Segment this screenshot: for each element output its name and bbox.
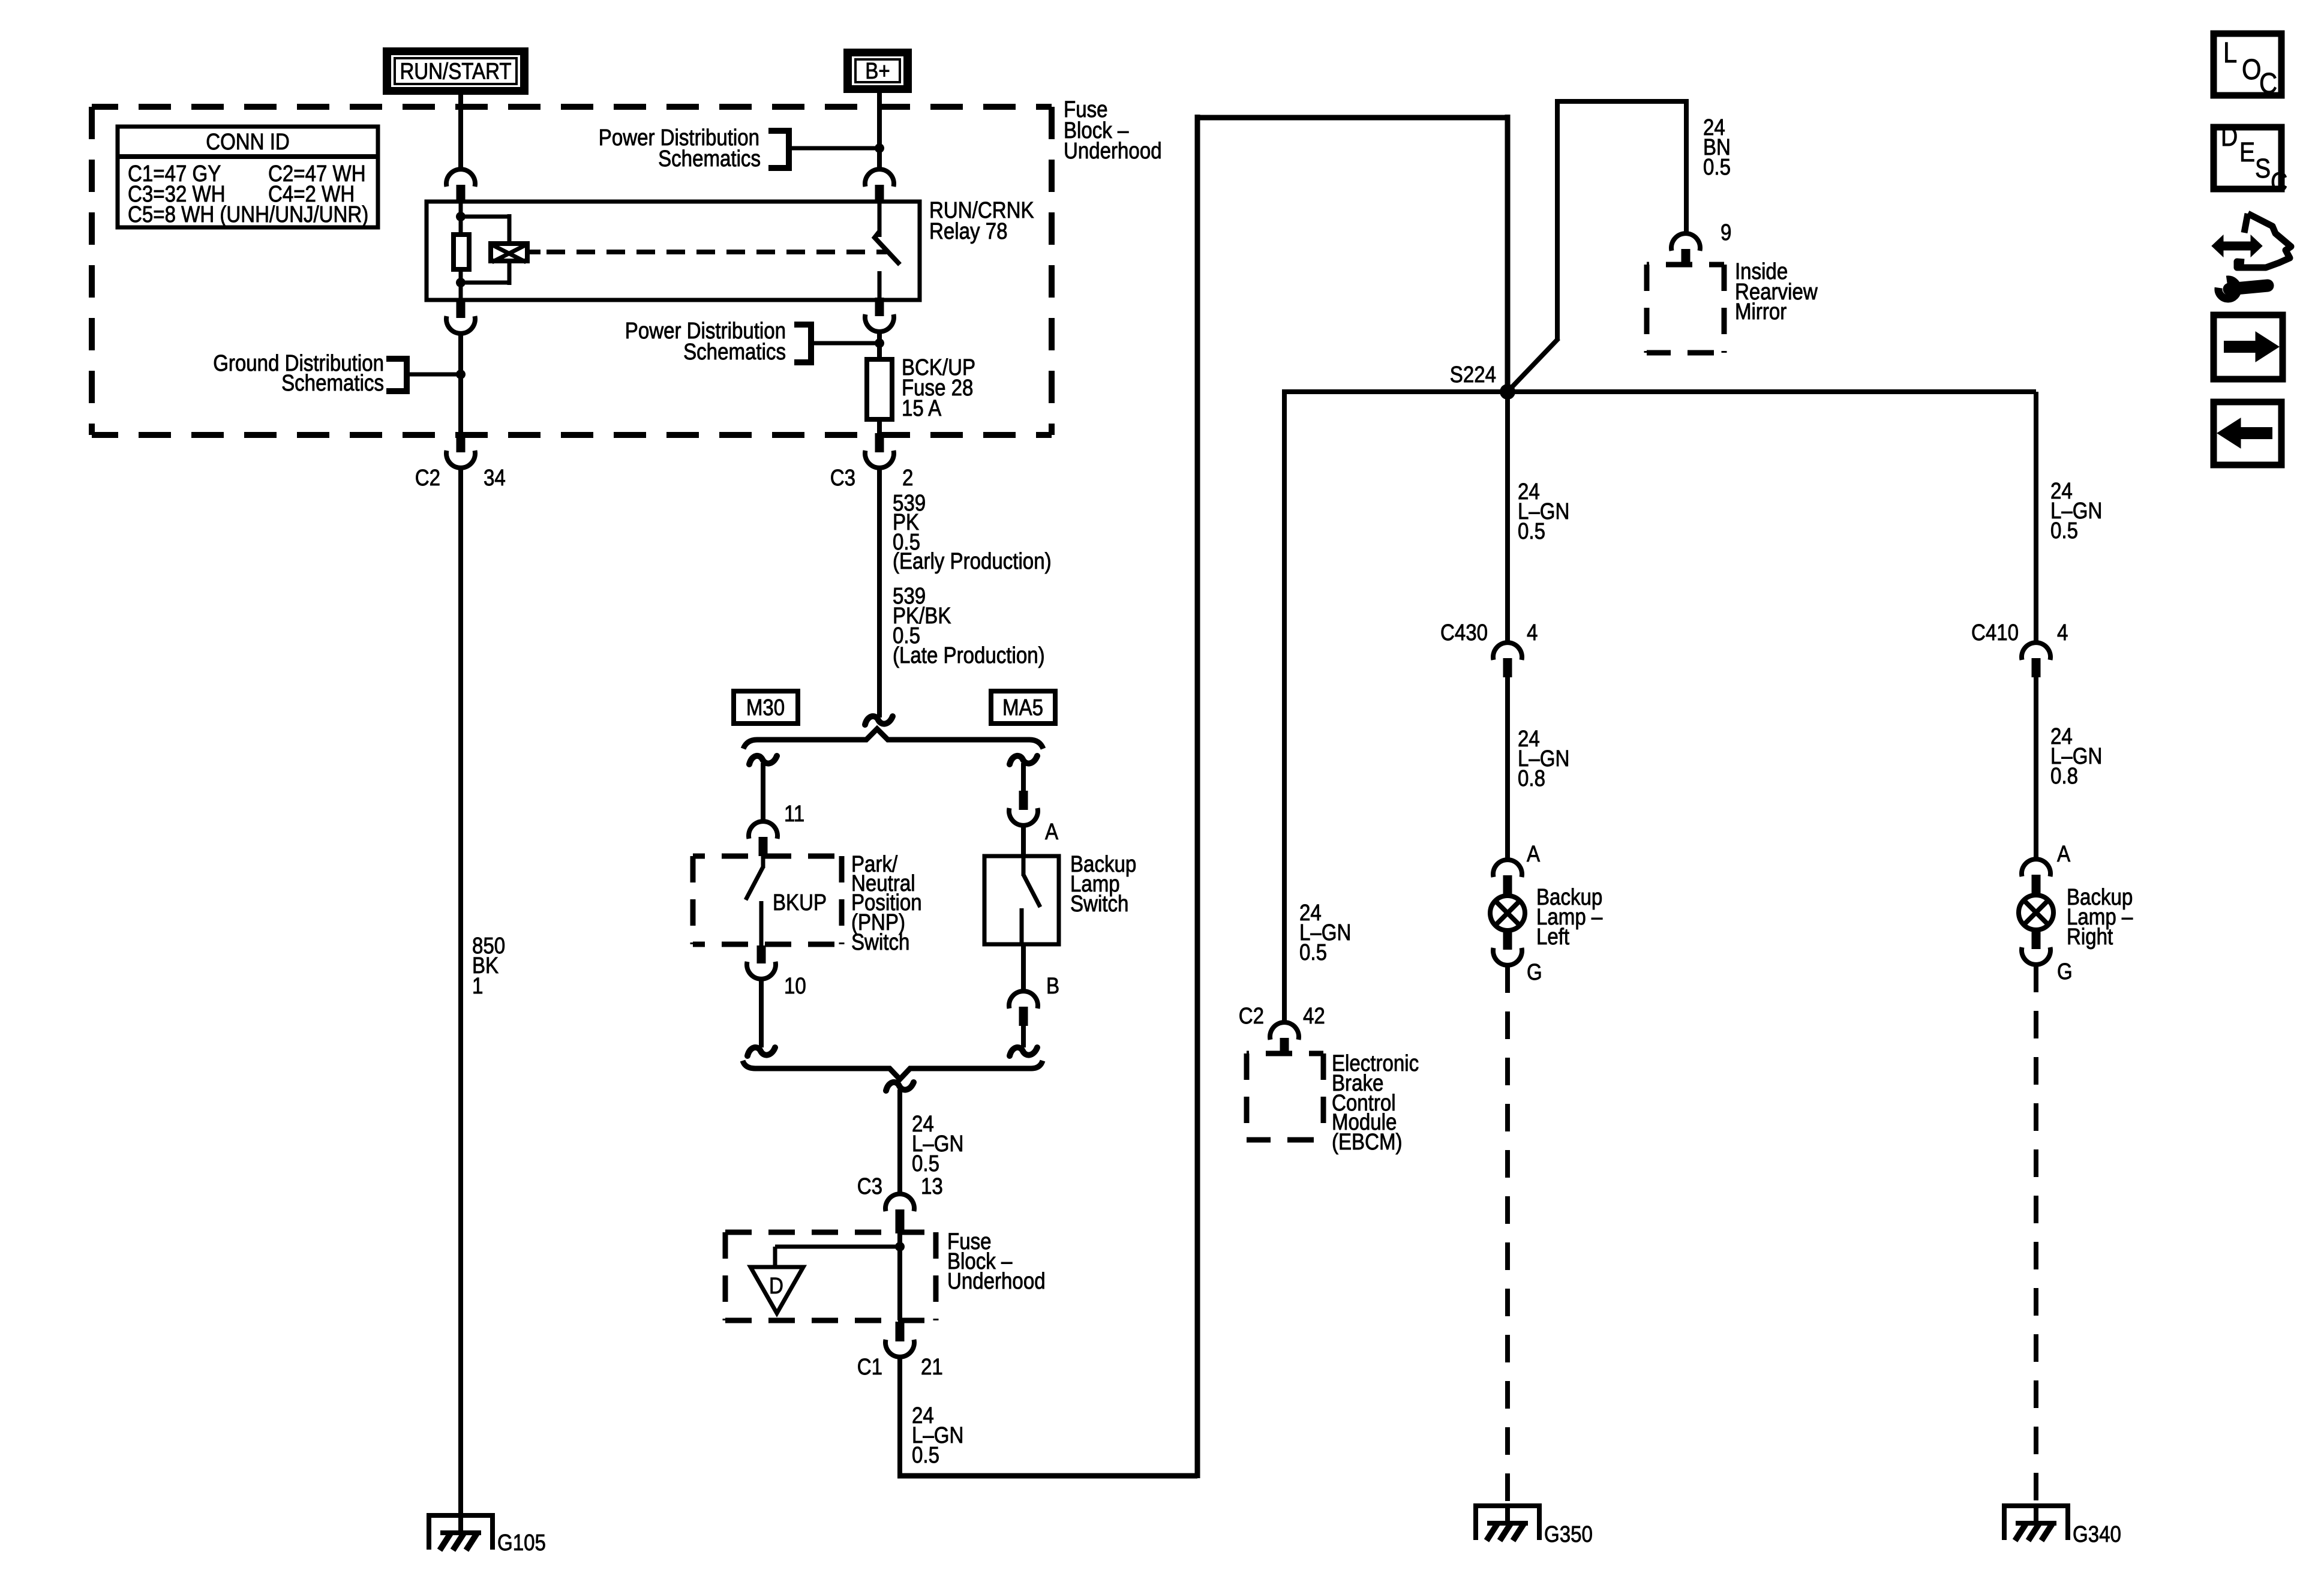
svg-text:4: 4: [2057, 620, 2068, 646]
wire bracket to left wire: [407, 373, 461, 377]
svg-text:13: 13: [921, 1174, 943, 1199]
connector lamp right pin G: [2032, 930, 2041, 949]
connector lamp right pin A: [2022, 859, 2050, 876]
wire diagonal S224 to mirror feed: [1506, 338, 1559, 394]
svg-text:Underhood: Underhood: [947, 1269, 1046, 1294]
backup lamp switch blade: [1022, 857, 1026, 876]
connector C3 pin 13: [885, 1194, 914, 1211]
connector below relay (right): [875, 298, 884, 316]
svg-text:(Late Production): (Late Production): [893, 643, 1045, 668]
svg-text:C2: C2: [1239, 1004, 1264, 1029]
svg-text:C2: C2: [415, 466, 440, 491]
wire M30 branch to pin 11: [761, 763, 765, 822]
svg-text:A: A: [2057, 842, 2071, 867]
wire hook below lower brace: [886, 1082, 914, 1091]
svg-text:M30: M30: [746, 695, 785, 721]
wire mirror feed top horizontal: [1555, 99, 1686, 104]
splice S224: [1500, 384, 1515, 400]
svg-text:S224: S224: [1450, 362, 1496, 388]
svg-text:C1: C1: [857, 1355, 882, 1380]
connector mirror pin 9: [1671, 233, 1700, 251]
relay box RUN/CRNK Relay 78: [427, 202, 920, 300]
wire hook above upper brace: [865, 716, 893, 725]
connector lamp left pin A: [1493, 860, 1522, 877]
EBCM dashed box: [1247, 1051, 1323, 1056]
svg-text:(Early Production): (Early Production): [893, 549, 1052, 574]
PNP switch blade: [761, 856, 765, 868]
power feed box RUN/START: [383, 47, 529, 95]
svg-text:11: 11: [784, 801, 804, 827]
svg-text:0.5: 0.5: [1703, 155, 1731, 180]
wire S224 to right lamp: [1508, 389, 2036, 394]
svg-text:Switch: Switch: [851, 930, 909, 955]
svg-text:Mirror: Mirror: [1735, 299, 1787, 325]
svg-text:9: 9: [1721, 220, 1731, 245]
relay solenoid element (box with X): [491, 244, 527, 261]
svg-text:S: S: [2255, 153, 2271, 184]
wire pin B to lower brace: [1021, 1026, 1026, 1047]
backup lamp switch box: [984, 856, 1059, 944]
svg-text:0.5: 0.5: [1299, 940, 1327, 965]
svg-text:0.5: 0.5: [1518, 519, 1545, 544]
relay switch contact wires: [878, 203, 882, 237]
wire C1/21 down and right: [897, 1356, 902, 1478]
connector pin B: [1021, 944, 1026, 992]
wire hook right branch bottom: [1010, 1047, 1037, 1056]
svg-text:C5=8 WH (UNH/UNJ/UNR): C5=8 WH (UNH/UNJ/UNR): [128, 202, 368, 227]
svg-text:4: 4: [1527, 620, 1538, 646]
junction dot ground distribution tap: [456, 370, 466, 379]
wire 24 BN 0.5 to mirror: [1684, 99, 1689, 235]
dashed ground wire to G340: [2034, 965, 2038, 1503]
wire top horizontal run: [1195, 115, 1508, 121]
svg-text:Schematics: Schematics: [658, 146, 761, 172]
junction dot power distribution tap (middle): [875, 338, 884, 348]
wire hook left branch bottom: [747, 1047, 775, 1056]
connector at relay switch (B+ side): [865, 169, 894, 187]
svg-text:0.5: 0.5: [912, 1443, 939, 1468]
connector box M30: [734, 691, 798, 724]
connector C2 pin 34: [457, 433, 466, 452]
reference bracket (ground distribution): [386, 359, 407, 391]
svg-text:G350: G350: [1544, 1522, 1593, 1547]
diode D (triangle): [750, 1267, 803, 1313]
fuse block - underhood dashed box: [92, 104, 1052, 110]
svg-text:C3: C3: [857, 1174, 882, 1199]
upper brace (split to M30/MA5): [743, 729, 1043, 749]
reference bracket (top power distribution): [768, 131, 789, 168]
relay control dashed line: [547, 250, 887, 254]
relay coil feed wire: [459, 203, 463, 217]
svg-text:BKUP: BKUP: [773, 890, 827, 915]
wire pin 10 to lower brace: [759, 978, 764, 1047]
svg-text:C430: C430: [1440, 620, 1488, 646]
svg-text:Switch: Switch: [1070, 891, 1128, 917]
svg-text:B: B: [1046, 974, 1059, 999]
relay coil (resistor): [454, 235, 469, 269]
svg-text:2: 2: [902, 466, 913, 491]
wire right riser: [1195, 115, 1200, 1478]
fuse BCK/UP Fuse 28 15A: [867, 359, 892, 419]
svg-text:(EBCM): (EBCM): [1332, 1130, 1403, 1155]
wire 539 PK to M30/MA5 split: [877, 467, 882, 718]
icon vehicle view with wrench: [2212, 235, 2262, 257]
connector pin 10: [757, 945, 766, 963]
ground G350: [1473, 1503, 1542, 1508]
connector box MA5: [991, 691, 1055, 724]
svg-text:O: O: [2242, 54, 2262, 86]
wire mirror feed vertical: [1555, 99, 1560, 341]
svg-text:D: D: [769, 1274, 783, 1299]
svg-text:RUN/START: RUN/START: [400, 59, 511, 85]
icon box arrow right: [2214, 315, 2283, 379]
svg-text:G: G: [2057, 959, 2073, 984]
svg-text:15 A: 15 A: [902, 396, 942, 421]
wire hook left branch top: [749, 756, 777, 764]
svg-text:0.5: 0.5: [2050, 518, 2078, 544]
connector C410 pin 4: [2022, 643, 2050, 660]
wire B+ to relay: [877, 93, 882, 170]
svg-text:0.5: 0.5: [912, 1151, 939, 1176]
svg-text:L: L: [2223, 37, 2237, 69]
wire C410 to lamp: [2034, 677, 2038, 860]
wire S224 to left lamp: [1505, 392, 1510, 644]
svg-text:10: 10: [784, 974, 806, 999]
svg-text:A: A: [1045, 819, 1059, 845]
junction dot coil bottom: [456, 278, 466, 287]
wire relay to ground distribution tap: [458, 332, 463, 433]
wire bracket to B+ wire: [789, 146, 879, 151]
lower brace (merge to single wire): [743, 1061, 1043, 1079]
svg-text:34: 34: [484, 466, 506, 491]
wire bracket to fuse wire: [809, 341, 879, 346]
svg-text:G105: G105: [497, 1530, 546, 1556]
wire RUN/START to relay: [458, 95, 463, 170]
svg-text:42: 42: [1303, 1004, 1325, 1029]
svg-text:C410: C410: [1971, 620, 2019, 646]
svg-text:Schematics: Schematics: [281, 371, 384, 396]
ground G105: [427, 1513, 495, 1518]
icon box arrow left: [2214, 402, 2281, 465]
dashed ground wire to G350: [1505, 965, 1510, 1503]
wire through lower fuse block: [897, 1233, 902, 1320]
wire hook right branch top: [1010, 756, 1037, 764]
svg-text:Left: Left: [1536, 924, 1569, 950]
junction dot power distribution tap: [875, 143, 884, 153]
svg-text:B+: B+: [865, 59, 890, 84]
svg-text:Relay 78: Relay 78: [929, 219, 1008, 244]
icon box LOC: [2214, 34, 2281, 95]
svg-text:1: 1: [472, 974, 483, 999]
svg-text:G: G: [1527, 960, 1542, 985]
svg-text:A: A: [1527, 842, 1541, 867]
svg-text:Right: Right: [2067, 924, 2113, 950]
connector at relay coil (RUN/START side): [446, 169, 475, 187]
svg-text:C3: C3: [830, 466, 855, 491]
backup lamp - left (bulb): [1490, 896, 1525, 930]
connector C430 pin 4: [1493, 643, 1522, 660]
wire relay to fuse: [877, 331, 882, 359]
svg-text:0.8: 0.8: [1518, 766, 1545, 791]
junction dot coil top: [456, 212, 466, 221]
connector lamp left pin G: [1503, 930, 1512, 950]
relay solenoid parallel branch wires: [461, 215, 509, 219]
fuse block - underhood dashed box (lower): [725, 1230, 936, 1235]
ground G340: [2002, 1503, 2070, 1508]
svg-text:G340: G340: [2073, 1522, 2121, 1547]
icon box DESC: [2214, 127, 2281, 189]
connector below relay (left): [457, 300, 466, 318]
svg-text:D: D: [2221, 121, 2238, 152]
svg-text:C: C: [2259, 68, 2277, 100]
wire MA5 branch to pin A: [1021, 763, 1026, 792]
wire S224 to EBCM branch: [1282, 389, 1508, 394]
svg-text:Underhood: Underhood: [1064, 139, 1162, 164]
svg-text:0.8: 0.8: [2050, 764, 2078, 789]
power feed box B+: [843, 49, 912, 93]
connector C3 pin 2: [875, 433, 884, 452]
reference bracket (middle power distribution): [794, 325, 811, 362]
wire C430 to lamp: [1505, 677, 1510, 861]
svg-text:E: E: [2239, 137, 2255, 167]
connector C1 pin 21: [896, 1322, 905, 1341]
CONN ID table: [118, 127, 378, 227]
backup lamp - right (bulb): [2019, 895, 2053, 930]
PNP switch dashed box: [693, 854, 842, 859]
junction dot in lower fuse block: [895, 1242, 905, 1251]
svg-text:C: C: [2271, 167, 2287, 197]
relay switch blade: [875, 232, 900, 265]
wire lower brace to C3/13: [897, 1089, 902, 1195]
wire fuse to C3 connector: [877, 419, 882, 433]
wire 850 BK 1 to G105: [458, 467, 463, 1513]
wire bottom horizontal run: [897, 1473, 1197, 1479]
connector pin A (backup lamp switch): [1019, 791, 1028, 810]
svg-text:21: 21: [921, 1355, 943, 1380]
svg-text:MA5: MA5: [1002, 695, 1043, 721]
connector C2 pin 42: [1270, 1022, 1299, 1040]
wire to diode: [775, 1245, 900, 1249]
svg-text:CONN ID: CONN ID: [206, 130, 290, 155]
wire drop to S224: [1505, 115, 1511, 392]
svg-text:Schematics: Schematics: [683, 340, 786, 365]
connector pin 11: [749, 821, 777, 839]
inside rearview mirror dashed box: [1647, 262, 1724, 268]
